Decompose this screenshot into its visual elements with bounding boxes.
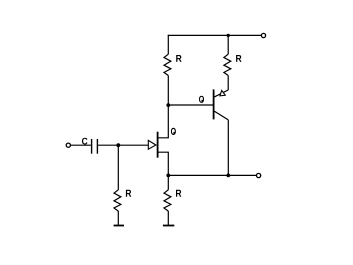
resistor R3 (input bias) [114, 145, 121, 225]
wire input to capacitor [71, 144, 91, 146]
label R2 value R [236, 55, 241, 62]
label Q2 [199, 96, 204, 103]
ground right [163, 225, 174, 227]
wire base of Q2 [168, 104, 213, 106]
ground left [114, 225, 124, 227]
node junction bottom rail at emitter [226, 174, 230, 178]
resistor R4 (emitter) [164, 175, 171, 225]
label R1 value R [176, 55, 181, 62]
label R4 value R [176, 190, 181, 197]
label R3 value R [126, 190, 131, 197]
terminal pin input left [66, 143, 70, 147]
label C1 value C [82, 138, 88, 145]
resistor R1 (left collector load) [164, 35, 171, 105]
resistor R2 (right collector load) [224, 35, 231, 90]
capacitor C1 [92, 139, 98, 154]
wire emitter of Q2 down [227, 120, 229, 175]
wire top rail VCC [168, 34, 261, 36]
transistor Q1 [148, 105, 168, 175]
node junction input node [116, 143, 120, 147]
wire capacitor to gate of Q1 [98, 144, 148, 146]
wire bottom rail [168, 174, 256, 176]
node junction bottom rail left [166, 174, 170, 178]
transistor Q2 [214, 89, 229, 120]
node A (base node of Q2) [166, 103, 170, 107]
terminal pin bottom right [257, 173, 261, 177]
label Q1 [171, 128, 176, 135]
node junction top rail [227, 34, 230, 37]
terminal pin top right [261, 33, 265, 37]
